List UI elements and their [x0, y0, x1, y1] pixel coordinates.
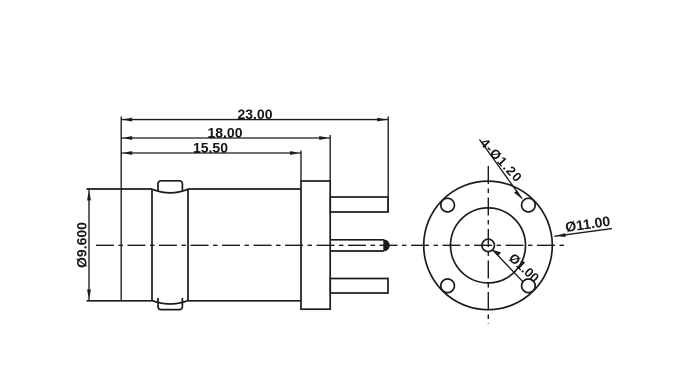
bayonet lug bottom: [158, 298, 182, 310]
leader line 4-O1.20: [480, 140, 523, 199]
bayonet lug top: [158, 181, 182, 192]
body divider x=188.5: [187, 189, 189, 301]
arrow O9.600 bottom: [87, 289, 91, 300]
leader line O1.00: [492, 250, 523, 283]
bolt hole bottom-left: [441, 279, 455, 293]
arrow 18.00 right: [319, 136, 330, 140]
svg-text:4-Ø1.20: 4-Ø1.20: [477, 135, 525, 185]
leader arrow O11.00: [554, 233, 566, 237]
svg-text:15.50: 15.50: [193, 139, 228, 155]
dimension line 18.00: [121, 137, 330, 139]
leader line O11.00: [554, 229, 612, 237]
center pin: [330, 240, 384, 251]
coupling nut top arc: [152, 189, 188, 193]
body divider line x=121 (also extension line for dims): [120, 117, 122, 301]
arrow O9.600 top: [87, 189, 91, 200]
body outline top and bottom edges: [87, 189, 302, 301]
svg-text:18.00: 18.00: [207, 124, 242, 140]
centerline horizontal axis: [96, 244, 567, 246]
extension line right for 15.50: [300, 151, 302, 182]
body divider x=152: [151, 189, 153, 301]
leader arrow 4-O1.20: [514, 190, 523, 199]
svg-text:Ø11.00: Ø11.00: [564, 213, 611, 235]
svg-text:23.00: 23.00: [237, 106, 272, 122]
dimension line vertical O9.600: [88, 190, 90, 301]
bolt hole top-right: [522, 198, 536, 212]
top leg: [330, 197, 388, 212]
bolt hole bottom-right: [522, 279, 536, 293]
flange: [301, 181, 330, 309]
extension line right for 18.00: [329, 135, 331, 181]
leader arrow O1.00: [492, 250, 501, 256]
svg-text:Ø9.600: Ø9.600: [74, 222, 90, 268]
arrow 18.00 left: [121, 136, 132, 140]
arrow 23.00 left: [121, 118, 132, 122]
centerline vertical of end view: [487, 166, 489, 324]
end view inner circle: [451, 208, 526, 283]
coupling nut bottom arc: [152, 301, 188, 304]
dimension line 15.50: [121, 152, 301, 154]
arrow 15.50 left: [121, 151, 132, 155]
extension line right for 23.00: [387, 117, 389, 213]
dimension line 23.00: [121, 119, 388, 121]
bottom leg: [330, 279, 388, 294]
arrow 23.00 right: [377, 118, 388, 122]
center pin tip cap: [384, 240, 389, 251]
end view outer circle: [424, 181, 553, 310]
bolt hole top-left: [441, 198, 455, 212]
end view center hole: [482, 239, 494, 251]
arrow 15.50 right: [290, 151, 301, 155]
